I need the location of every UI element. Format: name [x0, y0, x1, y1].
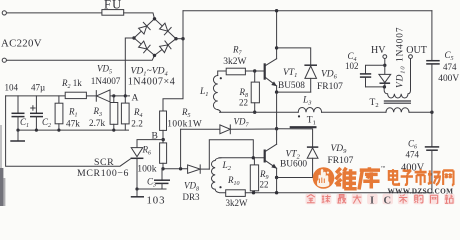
resistor R9 22	[250, 158, 258, 193]
transformer T2 primary	[386, 108, 409, 112]
node T2 secondary left	[383, 85, 386, 88]
terminal AC L	[2, 11, 6, 15]
resistor R4	[121, 96, 129, 130]
node R3 bottom	[112, 129, 115, 132]
inductor L3 T1 primary	[298, 107, 386, 112]
resistor R3	[110, 96, 118, 130]
node R9 bottom	[252, 191, 255, 194]
wire VT2 base row	[219, 157, 264, 159]
node top rail VT1	[275, 9, 278, 12]
node riser	[181, 37, 184, 40]
diode VD5	[96, 90, 110, 102]
svg-text:FU: FU	[104, 0, 122, 12]
node VD7 riser	[179, 167, 182, 170]
svg-text:102: 102	[345, 61, 359, 71]
resistor R5 100k1W	[160, 111, 167, 140]
node VT2 emitter rail	[275, 191, 278, 194]
svg-text:22: 22	[260, 180, 269, 190]
svg-text:474: 474	[443, 62, 457, 72]
svg-text:VD101N4007: VD101N4007	[396, 27, 407, 88]
wire OUT terminal down	[410, 59, 412, 89]
node VT1 emitter	[275, 90, 278, 93]
resistor R7 3k2W	[226, 68, 264, 75]
transistor VT1 BU508	[265, 48, 277, 92]
terminal AC N	[2, 58, 6, 62]
node L1 polarity dot	[220, 77, 222, 79]
wire riser to VD7 line	[180, 129, 182, 169]
node bridge right	[174, 37, 177, 40]
resistor R6 100k	[160, 140, 167, 169]
node R6 bottom	[161, 167, 164, 170]
svg-text:C: C	[384, 195, 392, 206]
wire main winding row	[220, 111, 299, 113]
wire bridge diamond	[134, 19, 176, 56]
diode VD2 top-right	[159, 22, 171, 34]
wire bottom-left ground rail	[18, 129, 129, 131]
node L2 polarity dot	[219, 186, 221, 188]
svg-text:100k: 100k	[137, 164, 156, 175]
svg-text:2.2: 2.2	[131, 118, 143, 128]
node C5 column junction	[430, 111, 433, 114]
resistor R1	[55, 96, 63, 130]
svg-text:FR107: FR107	[328, 156, 354, 166]
svg-text:OUT: OUT	[406, 45, 427, 56]
SECTION: scan artifacts	[0, 125, 5, 206]
wire VT2 emitter to ground rail	[276, 178, 278, 193]
diode VD6 FR107	[304, 65, 317, 92]
fuse FU	[102, 10, 124, 16]
watermark slogan row	[306, 194, 455, 207]
wire B to SCR anode	[137, 140, 163, 148]
svg-text:2.7k: 2.7k	[89, 118, 105, 128]
node VT1 collector	[275, 46, 278, 49]
ground symbol left	[10, 130, 25, 141]
svg-text:3k2W: 3k2W	[226, 198, 249, 206]
diode VD3 bottom-left	[138, 40, 150, 52]
wire bridge left to A column	[125, 38, 134, 96]
wire VD8 riser to VT2 base loop	[209, 140, 253, 169]
SECTION: watermark dzsc	[313, 165, 454, 195]
terminal OUT	[409, 55, 413, 59]
node VT1 emitter junction	[275, 127, 278, 130]
svg-text:BU600: BU600	[280, 159, 307, 169]
ground symbol SCR	[131, 189, 144, 197]
node VT2 emitter	[275, 176, 278, 179]
svg-text:3k2W: 3k2W	[223, 57, 246, 67]
svg-text:47µ: 47µ	[31, 83, 45, 93]
wire gate feed left column	[6, 96, 131, 166]
wire bridge right to top rail riser	[176, 38, 183, 40]
resistor R8 22	[251, 71, 259, 112]
wire top rail	[183, 10, 432, 12]
node R8 top	[253, 69, 256, 72]
wire HV terminal down	[384, 59, 386, 66]
svg-text:22: 22	[239, 98, 248, 108]
wire VT1 emitter down	[276, 92, 278, 129]
wire control rail right of R2	[86, 95, 96, 97]
node SCR cathode ground	[135, 187, 138, 190]
svg-text:BU508: BU508	[278, 81, 305, 91]
inductor L2	[211, 158, 225, 193]
node bridge bottom	[153, 54, 156, 57]
terminal HV	[383, 55, 387, 59]
node bridge top	[153, 17, 156, 20]
watermark text dianzishichangwang	[389, 169, 454, 185]
transformer T1 core	[290, 126, 317, 128]
node VT2 base junction	[252, 156, 255, 159]
svg-text:HV: HV	[371, 45, 386, 56]
svg-text:™: ™	[381, 165, 386, 170]
capacitor C3	[154, 169, 170, 189]
watermark logo hand	[317, 169, 329, 187]
svg-text:DR3: DR3	[183, 192, 201, 202]
watermark logo disc	[313, 167, 335, 189]
svg-text:1N4007: 1N4007	[91, 76, 121, 86]
resistor R2	[65, 92, 86, 98]
node bridge left	[132, 36, 135, 39]
svg-text:400V: 400V	[438, 74, 459, 84]
capacitor C5 474 400V	[426, 61, 440, 112]
wire emitter node to VD9 corner	[277, 129, 313, 147]
diode VD10	[379, 65, 391, 87]
svg-text:1N4007×4: 1N4007×4	[128, 76, 176, 87]
svg-text:I: I	[370, 195, 374, 206]
wire T2 primary to C5 column	[409, 111, 432, 113]
wire fuse to bridge top	[124, 13, 155, 19]
wire bottom rail	[245, 192, 432, 194]
watermark text weiku	[335, 167, 380, 189]
wire control rail	[6, 95, 66, 97]
transformer T2 core	[384, 101, 411, 103]
svg-text:104: 104	[5, 83, 19, 93]
node C1 bottom	[16, 129, 19, 132]
capacitor C6 474 400V	[425, 147, 439, 193]
wire VT1 collector rail	[276, 11, 278, 48]
wire VD6 top branch	[277, 48, 311, 65]
svg-text:A: A	[132, 94, 139, 104]
capacitor C2 electrolytic	[30, 96, 43, 130]
svg-text:47k: 47k	[66, 118, 80, 128]
node HV junction	[383, 64, 386, 67]
node R3 top	[112, 94, 115, 97]
svg-text:MCR100−6: MCR100−6	[77, 168, 129, 179]
wire riser down to R5 branch	[163, 39, 183, 111]
wire VT2 emitter to VD9 bottom	[277, 177, 313, 179]
svg-text:474: 474	[406, 150, 420, 160]
wire riser up	[182, 11, 184, 39]
svg-text:AC220V: AC220V	[1, 38, 42, 50]
transformer T2 secondary	[384, 87, 410, 98]
wire AC neutral to bridge bottom	[7, 55, 155, 60]
wire AC live to fuse	[7, 12, 102, 14]
capacitor C1	[12, 96, 25, 130]
diode VD4 bottom-right	[159, 41, 171, 53]
diode VD7	[181, 125, 277, 134]
node C2 bottom	[35, 129, 38, 132]
svg-text:100k1W: 100k1W	[167, 120, 202, 130]
wire right column upper	[431, 11, 433, 61]
wire SCR ground rail	[137, 188, 166, 190]
thyristor SCR MCR100-6	[131, 148, 144, 189]
svg-text:103: 103	[147, 194, 166, 206]
node R8 bottom	[253, 111, 256, 114]
node R4 top	[124, 94, 127, 97]
node B	[162, 138, 165, 141]
svg-text:FR107: FR107	[317, 82, 343, 92]
capacitor C4 102	[360, 74, 385, 87]
wire VD5 to node A	[110, 95, 130, 97]
resistor R10 3k2W	[226, 190, 246, 197]
svg-text:SCR: SCR	[94, 157, 114, 168]
transistor VT2 BU600	[265, 129, 277, 178]
diode VD8 DR3	[188, 165, 210, 173]
node T1 polarity dot	[298, 115, 300, 117]
wire HV to C4	[366, 65, 385, 74]
diode VD1 top-left	[138, 22, 150, 34]
node R1 bottom	[57, 129, 60, 132]
wire VD6 bottom branch	[277, 91, 311, 93]
inductor L1	[213, 71, 226, 112]
wire right column mid	[431, 112, 433, 147]
diode VD9 FR107	[307, 147, 318, 177]
wire R6 bottom to VD8	[163, 168, 188, 170]
